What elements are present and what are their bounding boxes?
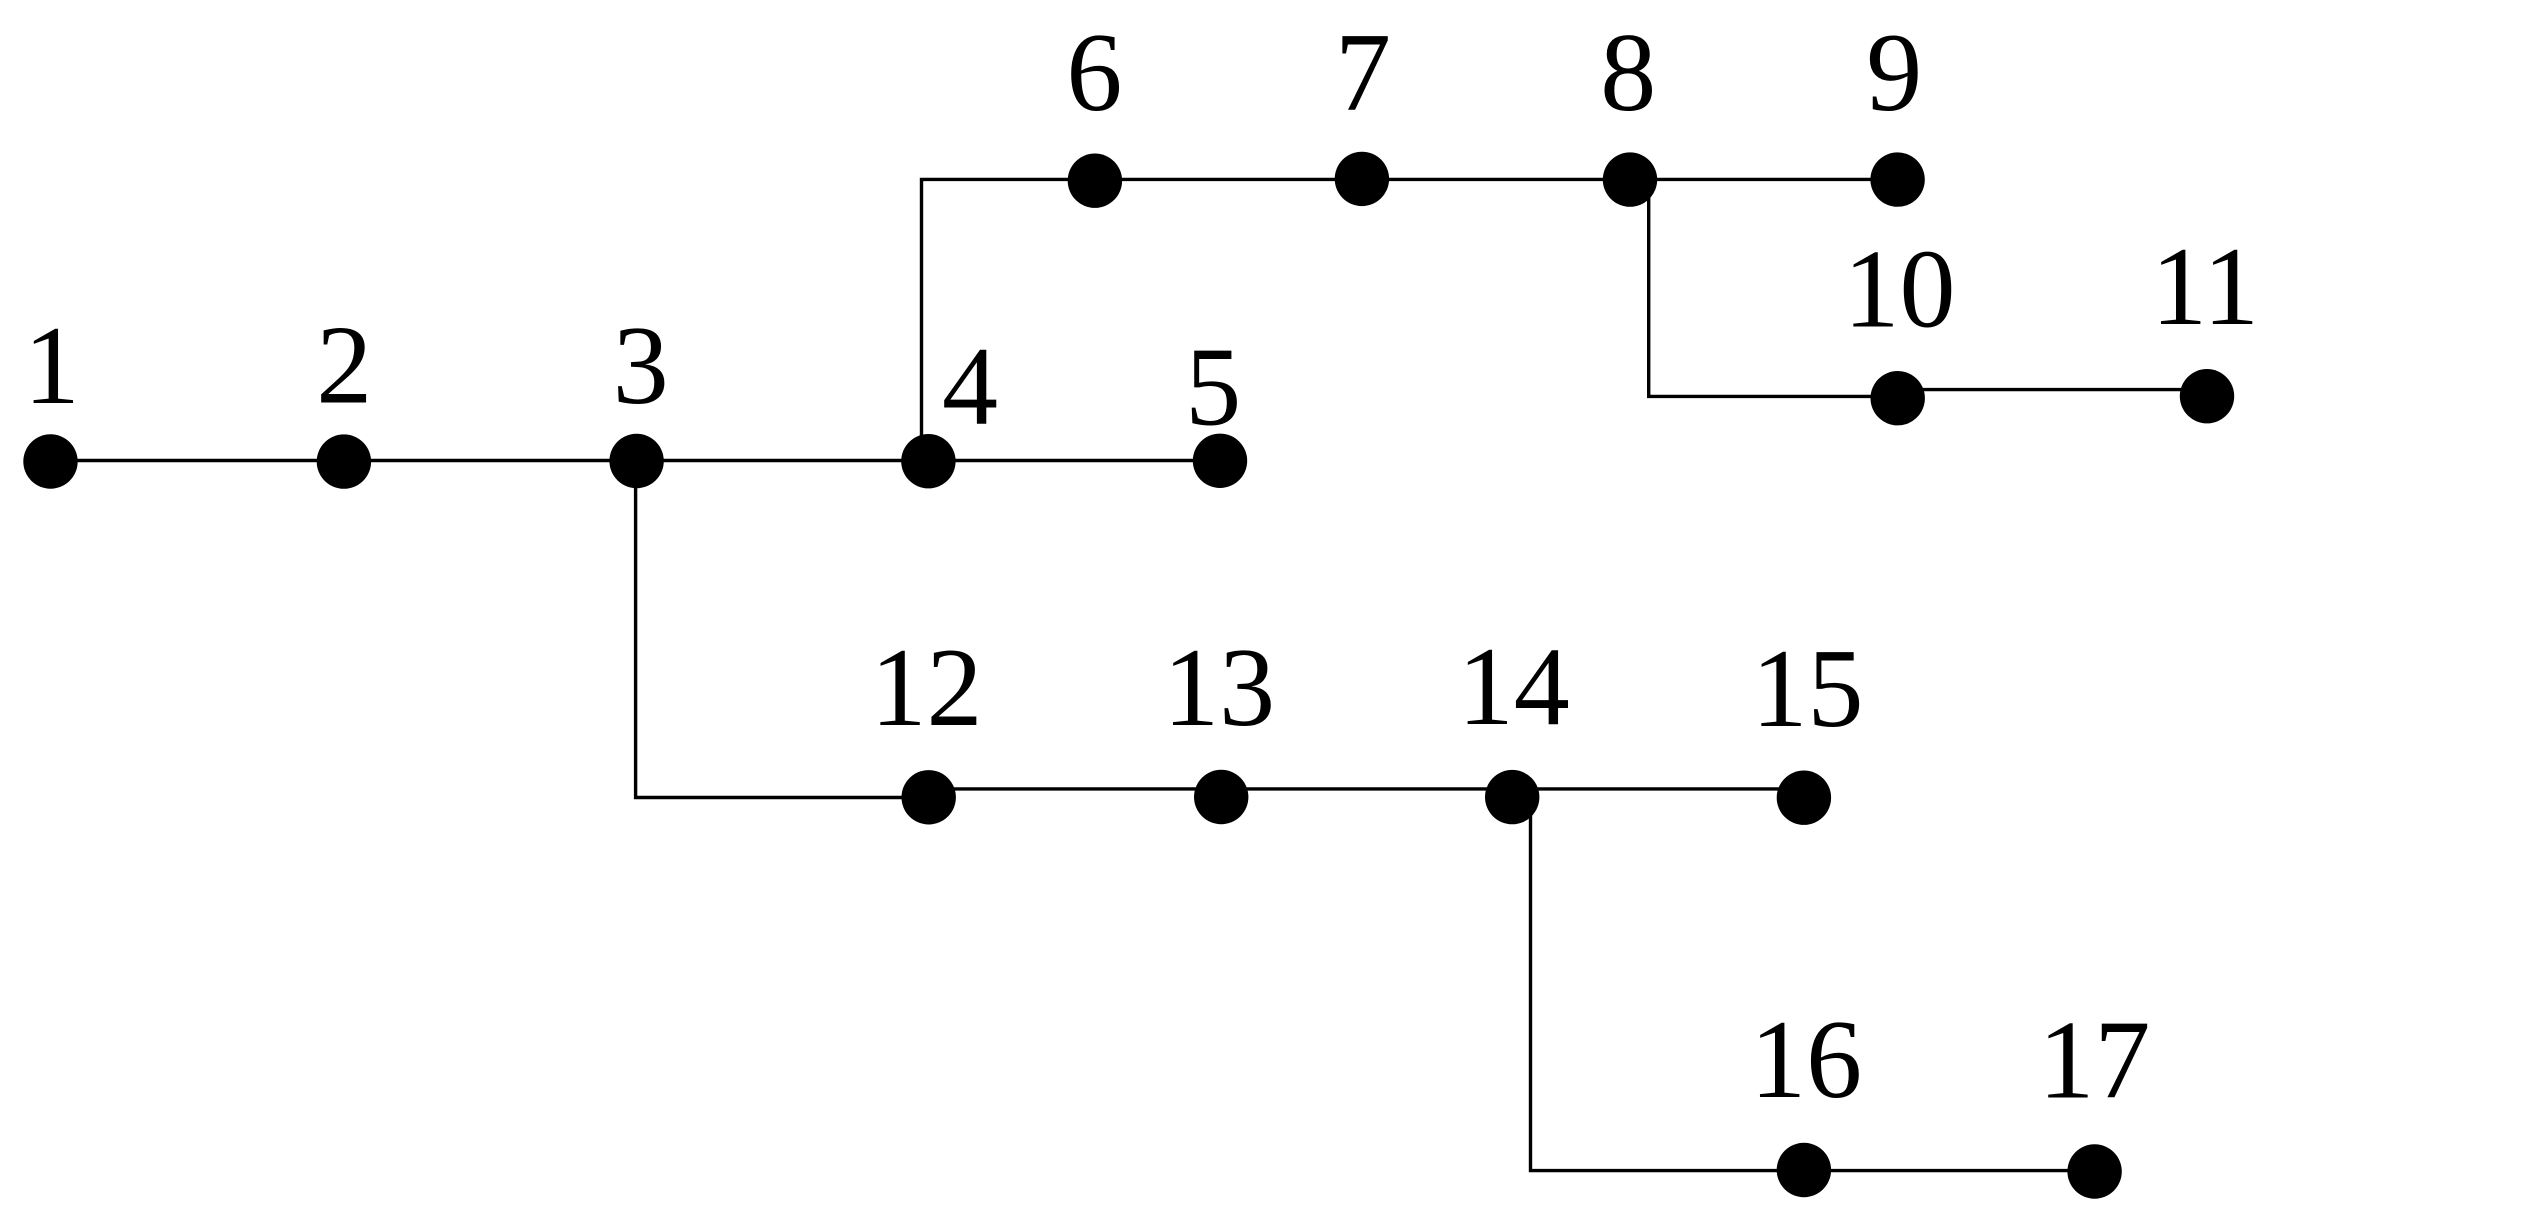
node 13 [1194,770,1248,824]
svg-text:14: 14 [1458,625,1570,749]
node 7 [1335,152,1389,206]
node 9 [1870,152,1924,206]
svg-text:15: 15 [1752,627,1864,751]
svg-text:10: 10 [1844,228,1956,352]
node 14 [1485,770,1539,824]
wire edge 4-5 [928,459,1220,462]
node 2 [317,434,371,488]
node 8 [1603,152,1657,206]
node 11 [2180,369,2234,423]
wire edge 3-4 [637,459,929,462]
wire edge 8-9 [1630,178,1898,181]
wire edge 1-2 [51,459,344,462]
wire edge 4-6 elbow [922,179,1095,461]
node 15 [1777,771,1831,825]
wire edge 6-7 [1095,178,1362,181]
svg-text:4: 4 [942,325,998,449]
svg-text:11: 11 [2151,225,2259,349]
svg-text:1: 1 [24,304,80,428]
wire edge 14-15 [1512,787,1804,790]
svg-text:3: 3 [613,304,669,428]
wire edge 3-12 elbow [636,461,929,798]
node 6 [1068,154,1122,208]
svg-text:9: 9 [1866,11,1922,135]
wire edge 16-17 [1804,1169,2095,1172]
svg-text:16: 16 [1750,998,1862,1122]
svg-text:13: 13 [1163,626,1275,750]
node 1 [23,434,77,488]
node 5 [1193,434,1247,488]
wire edge 12-13 [929,787,1221,790]
svg-text:8: 8 [1600,11,1656,135]
wire edge 8-10 elbow [1649,180,1898,397]
node 16 [1777,1143,1831,1197]
node 3 [609,434,663,488]
wire edge 14-16 elbow [1531,797,1804,1171]
svg-text:2: 2 [316,304,372,428]
svg-text:17: 17 [2038,999,2150,1123]
node 12 [902,770,956,824]
wire edge 2-3 [344,459,637,462]
node 4 [901,434,955,488]
wire edge 13-14 [1221,787,1512,790]
node 17 [2067,1144,2121,1198]
svg-text:12: 12 [871,626,983,750]
svg-text:7: 7 [1335,11,1391,135]
svg-text:5: 5 [1185,326,1241,450]
wire edge 10-11 [1898,388,2207,391]
wire edge 7-8 [1362,178,1630,181]
node 10 [1871,371,1925,425]
svg-text:6: 6 [1066,11,1122,135]
